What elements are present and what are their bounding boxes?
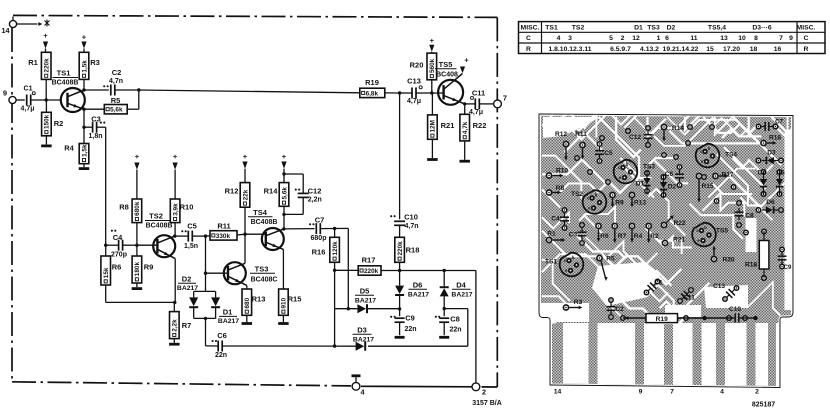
resistor R5 [84, 90, 139, 114]
svg-text:C9: C9 [405, 314, 415, 323]
svg-text:+: + [243, 152, 248, 161]
pcb resistor R17 [712, 172, 734, 180]
svg-text:TS4: TS4 [725, 152, 737, 159]
pcb capacitor C5 [595, 147, 613, 159]
svg-text:2: 2 [621, 35, 625, 42]
svg-text:R8: R8 [119, 203, 129, 212]
wire TS3 collector [243, 233, 246, 264]
svg-text:D3: D3 [357, 326, 367, 335]
resistor R13 [242, 285, 265, 322]
svg-text:C11: C11 [683, 295, 695, 302]
ground below R15 [278, 322, 289, 325]
schematic border left [11, 28, 13, 382]
supply + R1 [43, 31, 48, 52]
pcb resistor R19 jumper line [623, 314, 758, 323]
capacitor C10 [390, 213, 418, 238]
svg-text:5,6k: 5,6k [281, 187, 288, 200]
svg-text:R20: R20 [410, 61, 424, 70]
svg-text:C5: C5 [187, 222, 197, 231]
svg-text:+: + [464, 56, 469, 65]
capacitor C7 [284, 216, 349, 242]
supply + R3 [81, 32, 86, 52]
svg-text:17.20: 17.20 [723, 46, 740, 53]
svg-text:180k: 180k [134, 262, 141, 277]
svg-text:D5: D5 [360, 287, 370, 296]
svg-text:C13: C13 [713, 283, 725, 290]
ground below R7 [169, 343, 180, 346]
wire TS2 emitter to R7 [173, 259, 176, 304]
svg-text:1,8n: 1,8n [88, 133, 102, 140]
svg-text:TS5: TS5 [716, 228, 728, 235]
svg-text:D1: D1 [634, 25, 643, 32]
svg-text:14: 14 [554, 389, 562, 396]
ground below R2 [41, 144, 52, 147]
svg-text:11: 11 [690, 35, 697, 42]
svg-text:4: 4 [361, 388, 365, 397]
svg-text:R9: R9 [144, 263, 154, 272]
capacitor C11 [465, 89, 494, 116]
svg-text:120k: 120k [332, 241, 339, 256]
wire D4 node to corner [368, 309, 468, 347]
svg-text:R22: R22 [473, 121, 487, 130]
svg-text:R19: R19 [365, 78, 379, 87]
svg-text:4,7n: 4,7n [404, 223, 418, 230]
svg-text:C4: C4 [551, 216, 560, 223]
svg-text:R4: R4 [634, 233, 643, 240]
svg-text:R11: R11 [575, 131, 587, 138]
capacitor C12 [282, 174, 322, 216]
svg-text:C8: C8 [450, 315, 460, 324]
svg-text:9: 9 [3, 89, 7, 98]
pcb resistor R10 [546, 168, 569, 179]
pcb resistor R2 [645, 223, 659, 243]
resistor R14 [264, 174, 289, 229]
schematic border right [496, 17, 498, 387]
svg-text:R1: R1 [28, 58, 38, 67]
capacitor C6 [206, 331, 356, 359]
svg-text:+: + [282, 152, 287, 161]
node TS4 collector [282, 227, 285, 230]
ground below R9 [132, 287, 143, 290]
node C7 R16 [333, 227, 336, 230]
capacitor C5 [175, 222, 206, 250]
svg-text:C1: C1 [654, 280, 663, 287]
pcb diode D4 [758, 170, 767, 196]
bridge bottom rail [194, 317, 216, 320]
svg-text:TS2: TS2 [572, 25, 585, 32]
wire base TS2 [137, 244, 157, 246]
svg-text:1,5n: 1,5n [184, 243, 198, 250]
svg-text:22n: 22n [215, 352, 227, 359]
capacitor C1 [20, 86, 35, 113]
resistor R9 [132, 245, 153, 287]
svg-text:C4: C4 [113, 233, 123, 242]
svg-text:1: 1 [657, 35, 661, 42]
svg-text:1,5k: 1,5k [81, 60, 88, 73]
svg-text:R14: R14 [264, 187, 279, 196]
svg-text:7: 7 [779, 35, 783, 42]
svg-text:330k: 330k [216, 233, 231, 240]
component pinning table [519, 22, 826, 54]
capacitor C4 [106, 230, 137, 259]
pcb capacitor C6 [665, 170, 684, 182]
ground below R22 [459, 160, 470, 163]
wire TS4 emitter [282, 249, 284, 289]
node TS2 collector [173, 234, 176, 237]
resistor R3 [79, 52, 100, 90]
supply + R8 [134, 152, 139, 199]
svg-text:1,5k: 1,5k [81, 144, 88, 157]
svg-text:D5: D5 [776, 170, 785, 177]
pcb resistor R9 [609, 192, 624, 208]
svg-text:R21: R21 [441, 121, 455, 130]
svg-text:TS3: TS3 [255, 265, 269, 274]
terminal 14 [2, 17, 50, 36]
wire TS1 output to R19 [139, 90, 360, 93]
wire C2 to node [115, 88, 141, 91]
svg-text:2,2k: 2,2k [172, 319, 179, 332]
svg-text:4: 4 [720, 389, 724, 396]
wire collector to C2 [84, 89, 109, 91]
svg-text:3157 B/A: 3157 B/A [472, 400, 502, 407]
svg-text:D2: D2 [182, 275, 192, 284]
svg-text:R21: R21 [673, 237, 685, 244]
svg-text:4.13.2: 4.13.2 [640, 46, 659, 53]
svg-text:R: R [526, 46, 531, 53]
svg-text:R6: R6 [600, 233, 609, 240]
resistor R17 [335, 256, 476, 276]
pcb pin 9 [639, 389, 643, 396]
wire output down to C10 [399, 93, 401, 219]
pcb resistor R11 [575, 131, 587, 160]
svg-text:TS1: TS1 [57, 69, 71, 78]
pcb resistor R15 [696, 173, 714, 203]
pcb capacitor C8 [735, 208, 755, 220]
pcb solder pads [562, 124, 786, 322]
diode D3 [353, 326, 375, 351]
svg-text:4,7μ: 4,7μ [20, 106, 34, 113]
pcb pin 2 [755, 389, 759, 396]
svg-text:+: + [135, 152, 140, 161]
svg-text:C10: C10 [404, 213, 418, 222]
resistor R12 [225, 183, 250, 235]
svg-text:R12: R12 [555, 131, 567, 138]
svg-text:680: 680 [244, 297, 251, 308]
svg-text:15k: 15k [103, 267, 110, 278]
svg-text:C13: C13 [407, 77, 421, 86]
svg-text:2: 2 [482, 388, 486, 397]
svg-text:R2: R2 [54, 119, 64, 128]
node D6 C9 D5 [398, 307, 401, 310]
svg-text:D3: D3 [767, 150, 776, 157]
pcb resistor R21 [662, 237, 686, 247]
node D4 C8 [443, 307, 446, 310]
bridge top rail [194, 290, 216, 292]
svg-text:C6: C6 [217, 331, 227, 340]
svg-text:5: 5 [609, 35, 613, 42]
svg-text:7: 7 [503, 94, 507, 103]
svg-text:R15: R15 [288, 295, 302, 304]
svg-text:R18: R18 [406, 246, 420, 255]
pcb capacitor C13 [713, 283, 738, 301]
svg-text:BA217: BA217 [355, 298, 376, 305]
svg-text:TS1: TS1 [545, 259, 557, 266]
wire bridge vertical [205, 236, 207, 291]
svg-text:R3: R3 [90, 58, 100, 67]
svg-text:R11: R11 [217, 222, 230, 231]
wire C1 to TS1 base [31, 98, 62, 101]
svg-text:BA217: BA217 [218, 318, 239, 325]
printed circuit board 825187 [540, 115, 793, 388]
svg-text:BA217: BA217 [451, 292, 472, 299]
svg-text:15: 15 [706, 46, 714, 53]
svg-text:4,7n: 4,7n [109, 78, 123, 85]
svg-text:6,8k: 6,8k [366, 90, 379, 97]
node R8 R9 base [135, 244, 138, 247]
resistor R11 [206, 222, 246, 241]
diode D1 [211, 291, 239, 325]
svg-text:R14: R14 [672, 125, 684, 132]
pcb resistor R5 [596, 255, 615, 281]
svg-text:b: b [572, 255, 575, 260]
node TS5 emitter [463, 102, 466, 105]
svg-text:D2: D2 [667, 25, 676, 32]
capacitor C9 [390, 309, 416, 335]
svg-text:BC408B: BC408B [146, 223, 173, 230]
svg-text:TS2: TS2 [149, 212, 163, 221]
pcb capacitor C4 [551, 213, 569, 225]
pcb capacitor C11 [678, 288, 695, 303]
supply TS5 collector [460, 56, 469, 74]
svg-text:C10: C10 [729, 306, 741, 313]
svg-text:C12: C12 [308, 187, 322, 196]
pcb transistor TS5 [692, 223, 728, 247]
svg-text:BC408B: BC408B [52, 80, 79, 87]
svg-text:1.8.10.12.3.11: 1.8.10.12.3.11 [548, 46, 591, 53]
svg-text:C1: C1 [24, 86, 33, 93]
diode D5 [335, 287, 400, 314]
pcb capacitor C1 [645, 280, 663, 295]
resistor R22 [460, 104, 486, 160]
svg-text:220k: 220k [364, 268, 379, 275]
svg-text:TS3: TS3 [647, 25, 660, 32]
svg-text:BC408C: BC408C [251, 277, 278, 284]
supply + R14 [281, 152, 286, 174]
schematic border bottom solid part wire terminal4 to terminal2 [361, 385, 497, 388]
svg-text:C8: C8 [745, 213, 754, 220]
terminal 7 [494, 94, 507, 108]
pcb pin 14 [554, 389, 562, 396]
wire R16 node down to C6 rail [334, 270, 336, 346]
resistor R21 [428, 93, 455, 158]
svg-text:TS2: TS2 [571, 191, 583, 198]
pcb resistor R20 [711, 246, 735, 264]
pcb capacitor C2 [607, 303, 625, 315]
svg-text:R9: R9 [615, 200, 624, 207]
wire down to terminal 2 [475, 271, 477, 384]
wire base TS4 [245, 233, 266, 235]
svg-text:R2: R2 [650, 233, 659, 240]
svg-text:b: b [704, 225, 707, 230]
svg-text:R16: R16 [769, 135, 781, 142]
node R18 D6 [398, 269, 401, 272]
svg-text:270p: 270p [111, 252, 127, 259]
svg-text:9: 9 [639, 389, 643, 396]
svg-text:TS5: TS5 [439, 60, 453, 69]
wire C3 down to C4 node [105, 127, 107, 245]
svg-text:18: 18 [750, 46, 758, 53]
terminal 2 [472, 383, 486, 397]
ground below C9 [395, 336, 405, 339]
svg-text:R: R [804, 46, 809, 53]
pcb transistor TS4 [696, 144, 738, 168]
svg-text:C9: C9 [784, 265, 792, 271]
svg-text:BC408B: BC408B [251, 219, 278, 226]
pcb diode D2 [660, 174, 677, 198]
svg-text:D6: D6 [413, 281, 423, 290]
svg-text:C12: C12 [629, 134, 641, 141]
pcb resistor R16 [760, 135, 781, 147]
node D4 top [443, 269, 446, 272]
node R20 R21 [427, 91, 444, 94]
svg-text:R17: R17 [362, 256, 376, 265]
pcb capacitor C9 [778, 252, 792, 271]
pcb pin 7 [670, 389, 674, 396]
resistor R10 [170, 199, 193, 236]
svg-text:BA217: BA217 [177, 285, 198, 292]
pcb diode D3 [762, 150, 778, 165]
pcb resistor R8 [546, 185, 565, 196]
svg-text:MISC.: MISC. [797, 25, 816, 32]
pcb resistor R6 [595, 223, 609, 242]
pcb diode D6 [762, 199, 778, 214]
svg-text:D4: D4 [758, 170, 767, 177]
pcb transistor TS3 [614, 160, 656, 184]
svg-text:19.21.14.22: 19.21.14.22 [663, 46, 699, 53]
pcb resistor R4 [629, 223, 643, 243]
svg-text:R18: R18 [745, 262, 757, 269]
svg-text:D1: D1 [223, 308, 233, 317]
svg-text:14: 14 [2, 26, 10, 35]
svg-text:12: 12 [632, 35, 640, 42]
resistor R16 [312, 229, 340, 271]
svg-text:C7: C7 [315, 216, 325, 225]
svg-text:R3: R3 [574, 299, 583, 306]
resistor R18 [395, 237, 420, 270]
svg-text:R13: R13 [252, 295, 266, 304]
schematic border top [13, 15, 497, 17]
svg-text:C7: C7 [775, 120, 783, 126]
capacitor C8 [435, 309, 462, 336]
svg-text:4,7μ: 4,7μ [469, 109, 483, 116]
wire R6 to R7 node [106, 301, 175, 303]
transistor TS4 [248, 208, 284, 250]
svg-text:680k: 680k [134, 201, 141, 216]
pcb resistor R22 [661, 215, 686, 228]
svg-text:+: + [82, 32, 87, 41]
pcb resistor R13 [629, 192, 647, 208]
svg-text:D2: D2 [668, 184, 677, 191]
pcb diode D1 [636, 170, 651, 194]
svg-text:R10: R10 [556, 168, 568, 175]
svg-text:220k: 220k [44, 58, 51, 73]
node R14 C12 top [282, 172, 285, 175]
node R16 R17 [333, 269, 336, 272]
node TS1 collector [82, 88, 85, 91]
schematic border bottom left part [12, 382, 351, 386]
svg-text:D1: D1 [636, 181, 645, 188]
wire bridge to C6 [205, 318, 207, 346]
resistor R4 [64, 127, 89, 167]
diode D4 [440, 271, 473, 309]
svg-text:BA217: BA217 [408, 292, 429, 299]
transistor TS3 [224, 262, 278, 285]
pcb transistor TS1 [545, 253, 583, 277]
ground below R4 [79, 167, 90, 170]
svg-text:R8: R8 [556, 185, 565, 192]
pcb diode D5 [776, 170, 785, 196]
pcb resistor R1 [546, 231, 566, 244]
svg-text:4,7k: 4,7k [462, 121, 469, 134]
pcb trace channels [540, 80, 830, 387]
svg-text:560k: 560k [429, 58, 436, 73]
svg-text:TS4: TS4 [253, 208, 268, 217]
svg-text:+: + [173, 152, 178, 161]
wire C7 node down to D5 [347, 228, 349, 308]
svg-text:16: 16 [774, 46, 782, 53]
svg-text:BC408: BC408 [436, 72, 458, 79]
svg-text:R5: R5 [606, 256, 615, 263]
svg-text:C6: C6 [665, 171, 674, 178]
ground below C8 [439, 336, 449, 339]
svg-text:TS1: TS1 [545, 25, 558, 32]
svg-text:R5: R5 [111, 96, 121, 105]
resistor R7 [170, 302, 192, 342]
capacitor C13 [407, 77, 427, 106]
svg-text:R6: R6 [112, 263, 122, 272]
svg-text:BA217: BA217 [353, 336, 374, 343]
svg-text:R15: R15 [701, 183, 713, 190]
svg-text:+: + [430, 36, 435, 45]
wire to TS3 base [206, 272, 229, 274]
svg-text:4,7μ: 4,7μ [407, 98, 421, 105]
pcb capacitor C10 [729, 306, 743, 323]
svg-text:R1: R1 [547, 231, 556, 238]
svg-text:9: 9 [789, 35, 793, 42]
svg-text:3,9k: 3,9k [172, 203, 179, 216]
svg-text:TS3: TS3 [643, 164, 655, 171]
pcb resistor R3 [563, 299, 583, 311]
resistor R15 [279, 289, 302, 322]
svg-text:R4: R4 [64, 144, 74, 153]
svg-text:R22: R22 [673, 220, 685, 227]
transistor TS2 [145, 212, 175, 259]
node TS3 base tap [204, 272, 207, 275]
svg-text:6.5.9.7: 6.5.9.7 [610, 46, 631, 53]
pcb resistor R18 [745, 232, 769, 277]
svg-text:13: 13 [720, 35, 728, 42]
svg-text:R7: R7 [618, 233, 627, 240]
wire R19 to C13 [400, 92, 412, 94]
pcb resistor R12 [555, 131, 569, 161]
svg-text:22n: 22n [404, 326, 416, 333]
capacitor C3 [84, 115, 106, 140]
svg-text:C11: C11 [472, 89, 485, 98]
svg-text:10: 10 [738, 35, 746, 42]
pcb pin 4 [720, 389, 724, 396]
transistor TS5 [435, 60, 465, 105]
pcb capacitor C7 [761, 120, 783, 132]
